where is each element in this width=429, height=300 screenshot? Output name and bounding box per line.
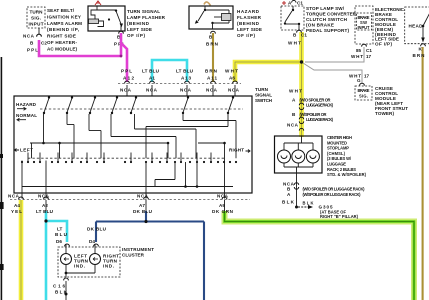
svg-text:PPL: PPL: [27, 48, 38, 53]
label: instrument cluster: [122, 247, 154, 258]
svg-text:A7: A7: [139, 203, 145, 208]
wire DK GRN A9 right and down: [225, 200, 415, 300]
bottom connector row of switch: [8, 193, 250, 199]
svg-text:TURN SIGNAL: TURN SIGNAL: [127, 9, 160, 14]
svg-text:NCA: NCA: [180, 88, 192, 93]
hazard/normal switch row (7 blades): [40, 96, 243, 114]
pin B C2 of seat belt module: [23, 28, 47, 53]
svg-text:OF I/P): OF I/P): [127, 33, 145, 38]
svg-text:STOP LAMP SW/: STOP LAMP SW/: [306, 6, 345, 11]
interior routing wires: [22, 114, 236, 199]
wiper ticks row 2: [28, 153, 211, 162]
svg-text:D4: D4: [89, 239, 95, 244]
turn signal switch box: [14, 96, 252, 193]
wire WHT to cruise module pin G: [303, 63, 362, 83]
svg-text:(CHMSL): (CHMSL): [327, 151, 346, 156]
svg-text:NCA: NCA: [287, 123, 299, 128]
svg-text:OF HEATER-: OF HEATER-: [47, 40, 77, 45]
svg-text:HAZARD: HAZARD: [16, 102, 37, 107]
svg-text:A9: A9: [219, 203, 225, 208]
wire BLK below CHMSL with inline connectors B/A: [282, 173, 365, 209]
svg-text:SIG.: SIG.: [359, 94, 368, 99]
label: CHMSL description: [327, 135, 367, 177]
svg-text:HEAD: HEAD: [409, 24, 424, 29]
connector row C2xx above turn signal switch: [118, 69, 241, 84]
pin B of hazard flasher: [206, 31, 219, 46]
svg-text:C1: C1: [301, 33, 307, 38]
wire WHT to EBCM pin 85: [305, 47, 364, 62]
module cruise control: [349, 74, 372, 101]
svg-text:LT BLU: LT BLU: [142, 69, 160, 74]
label LT BLU branch D6: [55, 227, 69, 247]
svg-text:WHT: WHT: [288, 41, 301, 46]
module headlamp switch: [405, 7, 429, 44]
svg-text:A11: A11: [207, 76, 217, 81]
page border left edge: [0, 57, 4, 300]
svg-text:INSTRUMENT: INSTRUMENT: [122, 247, 154, 252]
svg-text:(BEHIND I/P,: (BEHIND I/P,: [47, 27, 79, 32]
svg-text:AC MODULE): AC MODULE): [47, 46, 77, 51]
label: hazard flasher: [237, 9, 262, 38]
svg-text:SWITCH: SWITCH: [255, 98, 273, 103]
svg-text:C1: C1: [366, 48, 372, 53]
svg-text:CLUSTER: CLUSTER: [122, 253, 145, 258]
svg-text:WHT: WHT: [289, 89, 302, 94]
instrument cluster box: [58, 244, 120, 277]
lamp: right turn indicator: [90, 254, 120, 269]
ground G305: [298, 201, 359, 220]
svg-text:A12: A12: [123, 76, 134, 81]
svg-text:TURN: TURN: [30, 10, 44, 15]
svg-text:85: 85: [356, 48, 362, 53]
svg-text:NCA: NCA: [23, 34, 35, 39]
svg-text:IGNITION KEY: IGNITION KEY: [47, 14, 81, 19]
svg-text:NCA: NCA: [146, 88, 158, 93]
wire PPL from flasher to seat belt module and to A12: [39, 33, 127, 82]
svg-text:RACK; 2 BULBS: RACK; 2 BULBS: [327, 167, 356, 172]
bulb 2: [292, 150, 305, 163]
svg-text:LEFT: LEFT: [20, 148, 33, 153]
svg-text:(3 BULBS W/: (3 BULBS W/: [327, 156, 352, 161]
svg-text:BLU: BLU: [55, 232, 68, 237]
svg-text:(BEHIND: (BEHIND: [127, 21, 150, 26]
svg-text:SIGNAL: SIGNAL: [255, 93, 272, 98]
svg-text:NCA: NCA: [120, 88, 132, 93]
svg-text:(BEHIND: (BEHIND: [237, 21, 260, 26]
svg-text:INPUT: INPUT: [29, 22, 44, 27]
svg-text:BRN: BRN: [413, 53, 426, 58]
stop lamp switch S1: [281, 0, 304, 30]
label DK BLU branch D4: [87, 227, 107, 247]
module EBCM: [355, 6, 373, 44]
wire YEL A4 down left: [19, 200, 24, 300]
svg-text:G: G: [357, 78, 361, 83]
svg-text:LT BLU: LT BLU: [36, 209, 54, 214]
svg-text:C2: C2: [41, 41, 47, 46]
label: turn signal lamp flasher: [127, 9, 166, 38]
label: cruise control description: [375, 86, 408, 116]
wire BRN hazard flasher to A11: [212, 33, 214, 82]
svg-text:(W/O SPOILER OR LUGGAGE RACK): (W/O SPOILER OR LUGGAGE RACK): [303, 187, 366, 192]
svg-text:17: 17: [364, 74, 370, 79]
wire WHT inline connectors A/B above CHMSL: [287, 89, 334, 131]
svg-text:IND.: IND.: [103, 264, 114, 269]
svg-text:HAZARD: HAZARD: [237, 9, 260, 14]
pin 85 C1 of EBCM: [351, 44, 372, 59]
svg-text:INPUT: INPUT: [358, 25, 370, 30]
svg-text:(W/SPOILER OR LUGGAGE RACK): (W/SPOILER OR LUGGAGE RACK): [303, 192, 362, 197]
svg-text:TOWER): TOWER): [375, 111, 394, 116]
pin B of turn signal flasher: [114, 31, 125, 46]
svg-text:A2: A2: [42, 203, 48, 208]
svg-text:PPL: PPL: [121, 69, 132, 74]
bottom pin labels: [11, 203, 234, 214]
svg-text:17: 17: [366, 54, 372, 59]
lamp: left turn indicator: [61, 254, 89, 269]
svg-text:SEAT BELT/: SEAT BELT/: [47, 8, 75, 13]
svg-text:LT BLU: LT BLU: [176, 69, 194, 74]
svg-text:TURN: TURN: [255, 87, 269, 92]
svg-text:DK BLU: DK BLU: [87, 227, 107, 232]
svg-text:LAMP FLASHER: LAMP FLASHER: [127, 15, 166, 20]
label HAZARD / NORMAL with arrows: [16, 102, 37, 121]
label: EBCM description: [375, 7, 405, 46]
module: seat belt / ignition key lamps alarm (turn sig input dashed box): [27, 7, 45, 28]
bulb 1: [278, 150, 291, 163]
svg-text:RIGHT: RIGHT: [229, 148, 244, 153]
pin B C1 of stop lamp switch: [288, 30, 307, 45]
svg-text:CENTER HIGH: CENTER HIGH: [327, 135, 352, 140]
svg-text:NORMAL: NORMAL: [16, 113, 37, 118]
svg-text:LUGGAGE RACK): LUGGAGE RACK): [306, 103, 334, 108]
wire LT BLU loop A1 to A13: [152, 60, 187, 82]
svg-text:TORQUE CONVERTER: TORQUE CONVERTER: [306, 12, 357, 17]
svg-text:WHT: WHT: [225, 69, 238, 74]
svg-text:BLK: BLK: [282, 200, 295, 205]
svg-text:A13: A13: [181, 76, 191, 81]
svg-text:A1: A1: [149, 76, 155, 81]
wire LT BLU A2 to cluster and down: [44, 200, 67, 300]
svg-text:IND.: IND.: [74, 264, 85, 269]
svg-text:DK GRN: DK GRN: [212, 209, 234, 214]
svg-text:OF I/P): OF I/P): [375, 41, 392, 46]
svg-text:DK BLU: DK BLU: [133, 209, 153, 214]
svg-text:LUGGAGE: LUGGAGE: [327, 162, 346, 167]
wire WHT (yellow highlight) from stop lamp switch: [235, 32, 303, 137]
svg-text:D6: D6: [56, 239, 62, 244]
svg-text:OF I/P): OF I/P): [237, 33, 255, 38]
svg-text:BLK: BLK: [303, 201, 314, 206]
junction dots interior: [42, 142, 226, 188]
svg-text:LAMPS ALARM: LAMPS ALARM: [47, 21, 82, 26]
svg-text:LEFT SIDE: LEFT SIDE: [237, 27, 262, 32]
svg-text:C1: C1: [297, 1, 303, 6]
svg-text:YEL: YEL: [11, 209, 22, 214]
wire BRN from headlamp switch down right edge: [422, 47, 424, 300]
svg-text:BRN: BRN: [206, 42, 219, 47]
hazard flasher U2: [189, 2, 233, 29]
svg-text:RIGHT SIDE: RIGHT SIDE: [47, 34, 76, 39]
svg-text:PEDAL SUPPORT): PEDAL SUPPORT): [306, 28, 349, 33]
svg-text:NCA: NCA: [206, 88, 218, 93]
bulb 3: [306, 150, 319, 163]
turn signal lamp flasher U1: [88, 1, 125, 31]
svg-text:LEFT SIDE: LEFT SIDE: [127, 27, 152, 32]
svg-text:RIGHT "B" PILLAR): RIGHT "B" PILLAR): [320, 214, 359, 219]
svg-text:NCA: NCA: [8, 193, 20, 198]
svg-text:STOPLAMP: STOPLAMP: [327, 146, 349, 151]
svg-text:WHT: WHT: [351, 54, 363, 59]
svg-text:STD. & W/SPOILER): STD. & W/SPOILER): [327, 172, 367, 177]
label: stop lamp switch: [306, 6, 357, 33]
CHMSL box: [275, 136, 323, 173]
svg-text:LUGGAGE RACK): LUGGAGE RACK): [306, 117, 334, 122]
contact dots row 2: [21, 161, 237, 163]
svg-text:CLUTCH SWITCH: CLUTCH SWITCH: [306, 17, 348, 22]
svg-text:BRAKE: BRAKE: [358, 88, 370, 93]
cluster common ground wire: [53, 265, 95, 300]
svg-text:(ON BRAKE: (ON BRAKE: [306, 23, 334, 28]
svg-text:MOUNTED: MOUNTED: [327, 140, 347, 145]
left/right contact row: [15, 148, 251, 159]
svg-text:A4: A4: [14, 203, 20, 208]
svg-text:FLASHER: FLASHER: [237, 15, 262, 20]
svg-text:SIG.: SIG.: [31, 16, 41, 21]
label: seat belt module description: [47, 8, 82, 51]
svg-text:A6: A6: [229, 76, 235, 81]
label: turn signal switch: [255, 87, 273, 103]
svg-text:NCA: NCA: [228, 88, 240, 93]
pin K of headlamp switch: [413, 44, 426, 58]
wire DK BLU A7 to cluster D4 and down right: [96, 200, 204, 300]
connector pins into switch (5): [120, 81, 240, 96]
svg-text:C16: C16: [53, 284, 65, 289]
svg-text:BRN: BRN: [205, 69, 218, 74]
svg-text:LT: LT: [57, 227, 62, 232]
